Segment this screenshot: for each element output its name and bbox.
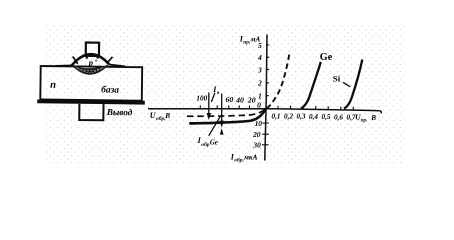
- svg-text:p: p: [88, 57, 94, 67]
- svg-text:В: В: [370, 114, 376, 122]
- forward branch dashed (Ge heated): [267, 51, 290, 108]
- svg-text:обр: обр: [201, 141, 209, 148]
- svg-text:Si: Si: [333, 73, 341, 83]
- bottom metal contact bar: [37, 101, 144, 102]
- svg-text:база: база: [101, 84, 119, 95]
- svg-text:обр,: обр,: [156, 115, 166, 122]
- svg-text:Ge: Ge: [320, 52, 333, 63]
- positive x ticks: [278, 106, 353, 110]
- bottom terminal rectangle: [79, 104, 103, 120]
- x axis: [148, 109, 380, 111]
- svg-text:0: 0: [257, 101, 261, 110]
- svg-text:Вывод: Вывод: [106, 107, 133, 117]
- body n-region rectangle: [40, 66, 142, 101]
- svg-text:пр,: пр,: [243, 39, 250, 45]
- measure arrow A (at -100 V): [208, 93, 210, 115]
- svg-text:3: 3: [257, 65, 262, 74]
- svg-text:40: 40: [235, 95, 244, 104]
- svg-text:0,6: 0,6: [334, 113, 343, 121]
- svg-text:0,4: 0,4: [309, 113, 318, 121]
- svg-text:2: 2: [257, 79, 262, 88]
- contact legs into pellet: [86, 56, 88, 59]
- svg-text:30: 30: [252, 141, 261, 150]
- svg-text:0,5: 0,5: [322, 113, 331, 121]
- forward branch Si: [344, 60, 362, 109]
- left whisker: [73, 56, 78, 63]
- Si leader line: [343, 82, 350, 87]
- leader from I_обрGe label: [209, 116, 221, 136]
- svg-text:0,2: 0,2: [284, 113, 293, 121]
- top contact rectangle: [86, 43, 99, 56]
- svg-text:10: 10: [255, 119, 263, 128]
- svg-text:обр,: обр,: [234, 156, 244, 163]
- p+ alloyed pellet lens: [72, 54, 110, 66]
- svg-text:4: 4: [257, 53, 262, 62]
- svg-text:В: В: [164, 112, 170, 120]
- forward branch Ge: [301, 62, 321, 109]
- positive y ticks: [266, 45, 270, 96]
- svg-text:20: 20: [247, 96, 256, 105]
- svg-text:100: 100: [196, 94, 207, 102]
- svg-text:+: +: [94, 59, 97, 65]
- reverse branch solid Ge left-end fattening: [191, 123, 213, 126]
- waterline joins at lens tips: [55, 65, 72, 66]
- svg-text:0,3: 0,3: [297, 113, 306, 121]
- svg-text:1: 1: [258, 92, 262, 101]
- slash between labels: [211, 93, 215, 102]
- right whisker: [107, 57, 113, 64]
- svg-text:60: 60: [226, 95, 234, 104]
- svg-text:n: n: [50, 80, 56, 91]
- negative x ticks: [200, 105, 249, 108]
- svg-text:Ge: Ge: [210, 140, 218, 147]
- svg-text:мкА: мкА: [243, 154, 258, 162]
- crescent hatch texture: [77, 67, 103, 71]
- svg-text:0,1: 0,1: [272, 112, 281, 120]
- reverse branch dashed (elevated temperature): [187, 109, 266, 117]
- alloy crescent (filled): [72, 64, 110, 75]
- reverse branch solid Ge: [190, 109, 265, 123]
- x axis arrow hook: [380, 111, 382, 114]
- svg-text:20: 20: [252, 130, 261, 139]
- y axis: [265, 35, 267, 161]
- scan halftone background: [46, 24, 404, 164]
- svg-text:пр.: пр.: [361, 118, 368, 123]
- svg-text:5: 5: [258, 41, 262, 50]
- measure arrow B (at -80 V): [221, 94, 223, 122]
- negative y ticks: [262, 123, 269, 145]
